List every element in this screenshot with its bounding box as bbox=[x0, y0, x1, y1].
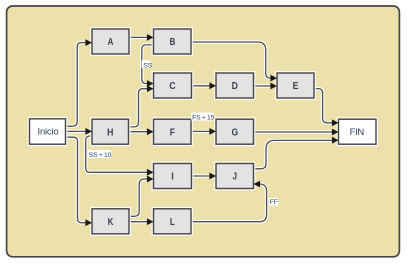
svg-text:D: D bbox=[232, 81, 239, 92]
svg-text:H: H bbox=[107, 127, 113, 138]
svg-text:SS: SS bbox=[143, 62, 152, 69]
svg-text:F: F bbox=[170, 127, 175, 138]
svg-text:L: L bbox=[170, 217, 175, 228]
svg-text:J: J bbox=[233, 172, 238, 183]
svg-text:FIN: FIN bbox=[350, 127, 365, 138]
svg-text:E: E bbox=[293, 81, 299, 92]
svg-text:B: B bbox=[170, 37, 176, 48]
svg-text:I: I bbox=[171, 172, 174, 183]
svg-text:FS + 15: FS + 15 bbox=[192, 114, 215, 121]
svg-text:FF: FF bbox=[270, 199, 278, 206]
svg-text:G: G bbox=[231, 127, 238, 138]
svg-text:A: A bbox=[108, 37, 114, 48]
svg-text:C: C bbox=[169, 81, 176, 92]
svg-text:Inicio: Inicio bbox=[38, 127, 59, 138]
svg-text:K: K bbox=[108, 217, 114, 228]
svg-text:SS + 10: SS + 10 bbox=[89, 152, 112, 159]
